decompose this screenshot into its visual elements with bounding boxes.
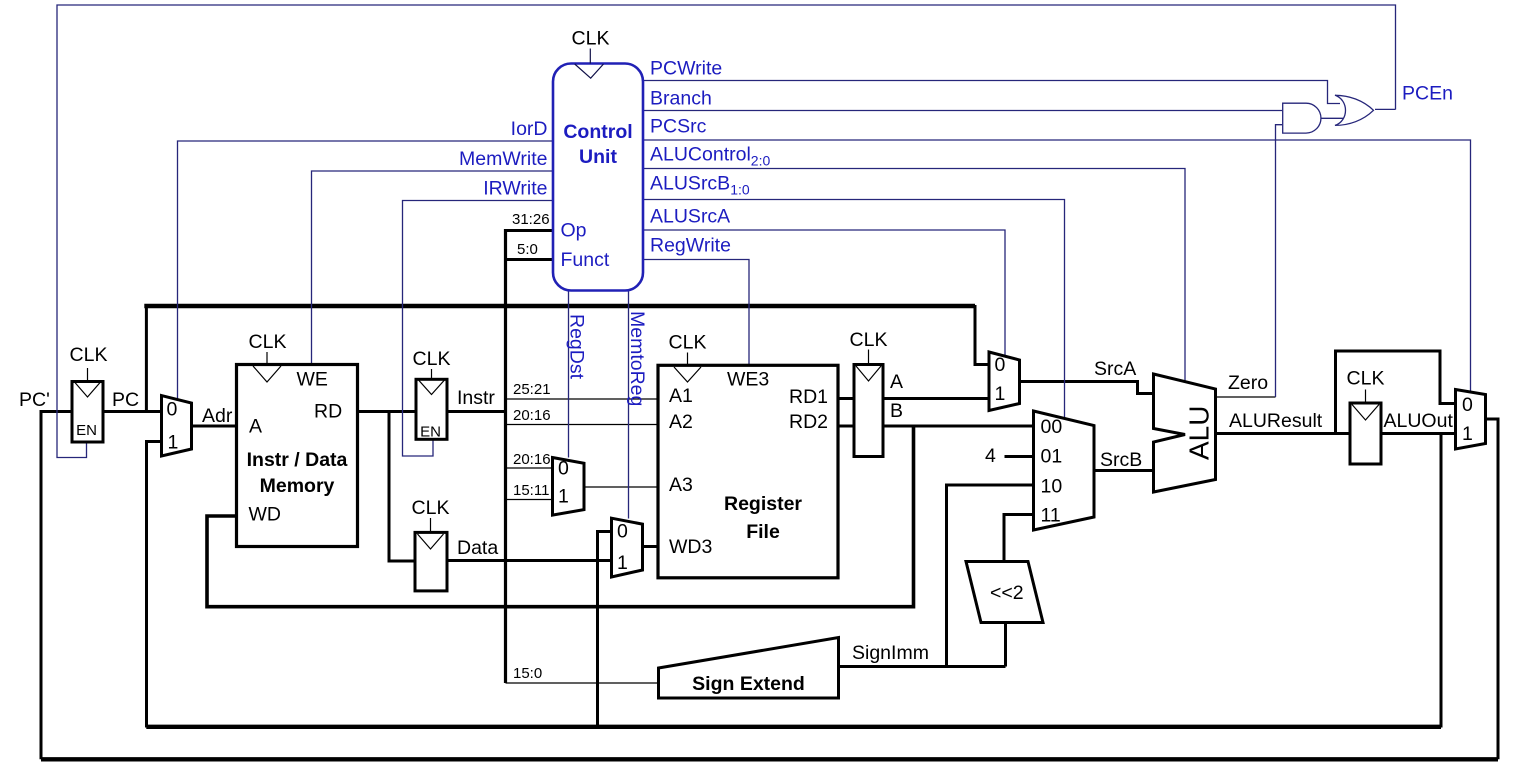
svg-text:15:0: 15:0 — [513, 665, 542, 682]
svg-text:CLK: CLK — [572, 28, 610, 50]
svg-text:MemtoReg: MemtoReg — [626, 311, 648, 406]
svg-text:1: 1 — [995, 383, 1006, 405]
svg-text:<<2: <<2 — [990, 582, 1024, 604]
svg-text:00: 00 — [1041, 416, 1063, 438]
svg-text:10: 10 — [1041, 476, 1063, 498]
svg-text:1: 1 — [558, 486, 569, 508]
svg-text:Instr: Instr — [457, 387, 495, 409]
svg-text:SignImm: SignImm — [852, 642, 929, 664]
svg-text:31:26: 31:26 — [512, 211, 550, 228]
svg-text:A: A — [890, 371, 903, 393]
svg-text:ALUResult: ALUResult — [1229, 410, 1323, 432]
svg-text:0: 0 — [617, 521, 628, 543]
svg-text:A1: A1 — [669, 385, 693, 407]
svg-text:MemWrite: MemWrite — [459, 148, 547, 170]
svg-text:0: 0 — [1462, 394, 1473, 416]
svg-text:A2: A2 — [669, 411, 693, 433]
svg-text:0: 0 — [995, 354, 1006, 376]
svg-text:PC: PC — [112, 389, 139, 411]
svg-text:1: 1 — [1462, 423, 1473, 445]
svg-text:PCEn: PCEn — [1402, 83, 1453, 105]
svg-text:WD3: WD3 — [669, 536, 712, 558]
svg-text:RD2: RD2 — [789, 411, 828, 433]
svg-text:CLK: CLK — [412, 497, 450, 519]
svg-text:PC': PC' — [19, 389, 50, 411]
svg-text:SrcB: SrcB — [1100, 449, 1142, 471]
svg-text:A: A — [249, 416, 262, 438]
svg-text:Instr / Data: Instr / Data — [247, 449, 348, 471]
svg-text:Funct: Funct — [561, 249, 610, 271]
svg-text:B: B — [890, 400, 903, 422]
svg-text:Zero: Zero — [1228, 372, 1268, 394]
svg-text:IRWrite: IRWrite — [483, 178, 547, 200]
svg-text:RD: RD — [314, 401, 342, 423]
svg-text:ALUSrcA: ALUSrcA — [650, 206, 730, 228]
svg-text:CLK: CLK — [850, 329, 888, 351]
svg-text:CLK: CLK — [1347, 368, 1385, 390]
svg-text:Adr: Adr — [202, 405, 233, 427]
svg-text:0: 0 — [167, 399, 178, 421]
svg-text:PCWrite: PCWrite — [650, 58, 722, 80]
svg-text:Control: Control — [563, 121, 632, 143]
svg-text:Op: Op — [561, 220, 587, 242]
svg-text:Unit: Unit — [579, 146, 617, 168]
svg-text:Data: Data — [457, 537, 498, 559]
svg-text:WD: WD — [249, 504, 282, 526]
svg-text:WE: WE — [297, 369, 328, 391]
svg-text:4: 4 — [985, 445, 996, 467]
svg-text:A3: A3 — [669, 474, 693, 496]
svg-text:20:16: 20:16 — [513, 451, 551, 468]
svg-text:RegDst: RegDst — [566, 314, 588, 380]
svg-text:20:16: 20:16 — [513, 407, 551, 424]
svg-text:EN: EN — [420, 424, 441, 441]
svg-text:0: 0 — [558, 458, 569, 480]
svg-text:01: 01 — [1041, 446, 1063, 468]
svg-text:RD1: RD1 — [789, 386, 828, 408]
svg-text:RegWrite: RegWrite — [650, 235, 731, 257]
svg-text:ALUOut: ALUOut — [1384, 410, 1454, 432]
svg-text:Memory: Memory — [260, 475, 335, 497]
svg-text:25:21: 25:21 — [513, 381, 551, 398]
svg-text:CLK: CLK — [413, 348, 451, 370]
svg-text:5:0: 5:0 — [517, 241, 538, 258]
svg-text:Register: Register — [724, 493, 802, 515]
svg-text:1: 1 — [168, 432, 179, 454]
svg-text:EN: EN — [76, 422, 97, 439]
svg-text:CLK: CLK — [70, 344, 108, 366]
svg-text:SrcA: SrcA — [1094, 358, 1136, 380]
svg-text:ALUSrcB1:0: ALUSrcB1:0 — [650, 173, 750, 198]
svg-text:11: 11 — [1041, 505, 1061, 527]
svg-text:CLK: CLK — [249, 331, 287, 353]
svg-text:File: File — [746, 521, 780, 543]
svg-text:15:11: 15:11 — [513, 482, 549, 499]
svg-text:CLK: CLK — [669, 332, 707, 354]
svg-text:PCSrc: PCSrc — [650, 116, 707, 138]
svg-text:Branch: Branch — [650, 88, 712, 110]
svg-text:IorD: IorD — [511, 118, 548, 140]
svg-text:ALUControl2:0: ALUControl2:0 — [650, 144, 770, 169]
svg-text:1: 1 — [617, 552, 628, 574]
svg-text:WE3: WE3 — [727, 369, 769, 391]
svg-text:ALU: ALU — [1184, 406, 1215, 460]
svg-text:Sign Extend: Sign Extend — [692, 673, 805, 695]
